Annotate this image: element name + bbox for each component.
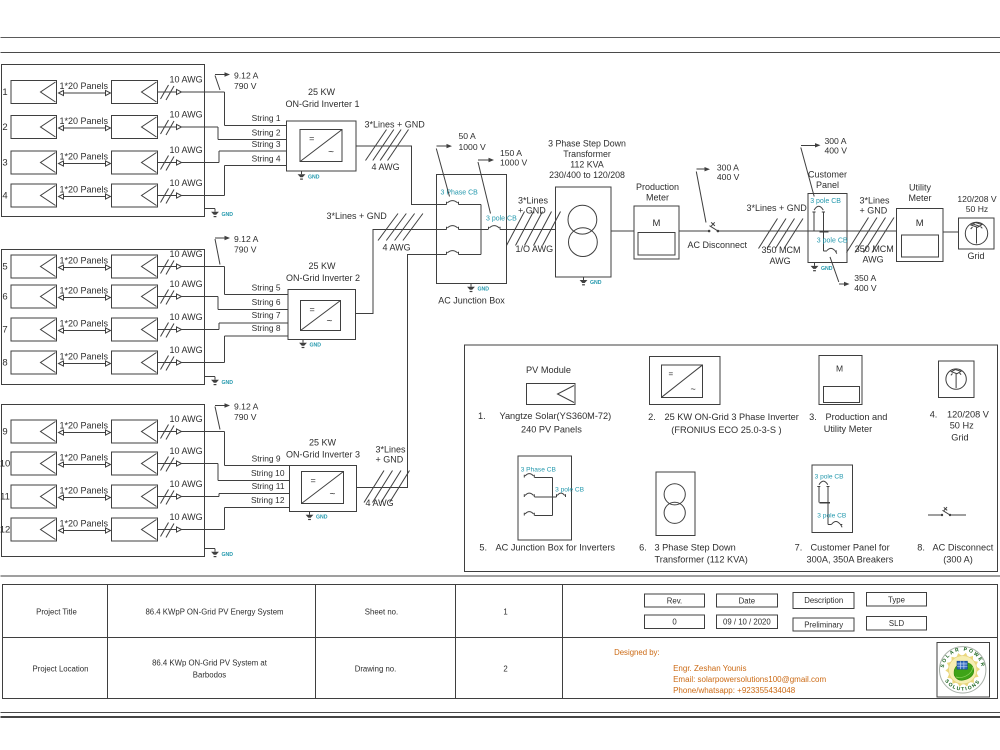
svg-text:String 11: String 11 (252, 481, 285, 491)
svg-text:1*20 Panels: 1*20 Panels (60, 81, 109, 91)
annotation leader 300 A customer (801, 148, 814, 197)
svg-text:1*20 Panels: 1*20 Panels (60, 421, 109, 431)
svg-text:25 KW: 25 KW (308, 87, 336, 97)
ground symbol group 1 (214, 209, 216, 212)
legend junction breaker 2 (524, 493, 534, 497)
svg-text:3 pole CB: 3 pole CB (815, 474, 845, 481)
svg-text:=: = (310, 305, 315, 315)
ground symbol transformer (583, 277, 585, 280)
bottom border line 1 (1, 712, 1000, 714)
wire utility meter to grid (943, 231, 958, 233)
PV panel symbol A string 11 (11, 485, 57, 508)
conductor size slashes string 2 (161, 120, 169, 134)
svg-text:10: 10 (0, 459, 10, 470)
svg-text:Production and: Production and (826, 412, 888, 422)
series arrow between panels string 10 (59, 464, 110, 466)
svg-text:9.12 A: 9.12 A (234, 71, 259, 81)
svg-text:String 3: String 3 (252, 139, 281, 149)
svg-text:ON-Grid Inverter 1: ON-Grid Inverter 1 (285, 99, 359, 109)
wire customer panel to utility meter (847, 230, 897, 232)
output wire with arrow string 10 (158, 463, 219, 465)
legend customer panel top breaker (817, 481, 829, 486)
PV panel symbol A string 8 (11, 351, 57, 374)
svg-text:+ GND: + GND (518, 205, 546, 215)
string wire String 9 (224, 465, 289, 467)
svg-text:+ GND: + GND (860, 205, 888, 215)
legend grid circle symbol (946, 369, 966, 389)
svg-text:10 AWG: 10 AWG (170, 249, 203, 259)
ground symbol group 3 (214, 549, 216, 552)
wire inverter 2 output to AC junction box (356, 230, 447, 314)
3 pole CB breaker in junction box (489, 226, 501, 230)
PV panel symbol A string 3 (11, 151, 57, 174)
title block column line 2 (315, 585, 317, 699)
svg-text:10 AWG: 10 AWG (170, 414, 203, 424)
svg-text:ON-Grid Inverter 2: ON-Grid Inverter 2 (286, 273, 360, 283)
legend customer panel box (812, 465, 853, 532)
svg-text:3 Phase Step Down: 3 Phase Step Down (655, 543, 736, 553)
svg-text:3 Phase CB: 3 Phase CB (441, 190, 479, 197)
wire production meter to AC disconnect (679, 230, 709, 232)
svg-text:25 KW: 25 KW (309, 438, 337, 448)
riser wire group 1 row 2 (217, 127, 219, 139)
conductor slashes junction to transformer (507, 212, 525, 246)
legend customer panel contact bar (820, 502, 831, 504)
wire inverter 1 output to AC junction box (356, 146, 446, 204)
series arrow between panels string 5 (59, 267, 110, 269)
svg-text:7.: 7. (795, 543, 803, 553)
svg-text:1.: 1. (478, 411, 486, 421)
svg-text:3.: 3. (809, 412, 817, 422)
svg-text:10 AWG: 10 AWG (170, 345, 203, 355)
svg-text:=: = (669, 370, 674, 379)
svg-text:String 7: String 7 (252, 310, 281, 320)
svg-text:1*20 Panels: 1*20 Panels (60, 152, 109, 162)
string wire String 1 (224, 125, 286, 127)
legend junction box symbol (518, 456, 571, 540)
svg-text:Engr. Zeshan Younis: Engr. Zeshan Younis (673, 664, 746, 673)
svg-text:9: 9 (2, 427, 7, 438)
output wire with arrow string 7 (158, 329, 220, 331)
svg-text:Designed by:: Designed by: (614, 648, 660, 657)
riser wire group 2 row 3 (218, 323, 220, 330)
svg-text:2.: 2. (648, 412, 656, 422)
inverter U2 outer box (288, 290, 356, 340)
svg-text:GND: GND (478, 287, 490, 293)
AC junction box enclosure (437, 175, 507, 284)
svg-text:Description: Description (804, 596, 843, 605)
PV panel symbol B string 7 (112, 318, 158, 341)
svg-text:10 AWG: 10 AWG (170, 512, 203, 522)
series arrow between panels string 3 (59, 163, 110, 165)
svg-text:1*20 Panels: 1*20 Panels (60, 256, 109, 266)
conductor slashes disconnect to customer panel (759, 219, 778, 249)
svg-text:(FRONIUS ECO 25.0-3-S ): (FRONIUS ECO 25.0-3-S ) (671, 425, 781, 435)
svg-text:350 MCM: 350 MCM (762, 245, 801, 255)
svg-text:120/208 V: 120/208 V (957, 194, 996, 204)
Type value box (867, 617, 927, 630)
svg-text:8: 8 (2, 358, 7, 369)
svg-text:1*20 Panels: 1*20 Panels (60, 319, 109, 329)
svg-text:25 KW ON-Grid 3 Phase Inverter: 25 KW ON-Grid 3 Phase Inverter (665, 412, 799, 422)
svg-text:1*20 Panels: 1*20 Panels (60, 519, 109, 529)
series arrow between panels string 12 (59, 530, 110, 532)
svg-text:1*20 Panels: 1*20 Panels (60, 286, 109, 296)
svg-text:12: 12 (0, 525, 10, 536)
svg-text:Type: Type (888, 596, 905, 605)
PV panel symbol B string 9 (112, 420, 158, 443)
inverter U1 inner symbol (300, 130, 342, 162)
junction box vertical bus (480, 205, 482, 255)
svg-text:10 AWG: 10 AWG (170, 479, 203, 489)
PV array group 3 enclosure box (2, 405, 205, 557)
PV panel symbol B string 8 (112, 351, 158, 374)
svg-text:Project Title: Project Title (36, 608, 77, 617)
Date header box (716, 594, 777, 607)
conductor size slashes string 7 (161, 323, 169, 337)
svg-text:Utility Meter: Utility Meter (824, 424, 873, 434)
svg-text:50 A: 50 A (459, 131, 476, 141)
riser wire group 1 row 1 (223, 92, 225, 126)
svg-text:~: ~ (328, 147, 334, 158)
svg-text:Yangtze Solar(YS360M-72): Yangtze Solar(YS360M-72) (500, 411, 612, 421)
svg-text:String 9: String 9 (252, 454, 281, 464)
ground stub wire group 1 (205, 208, 216, 210)
svg-text:112 KVA: 112 KVA (570, 160, 604, 170)
customer panel main wire (808, 230, 847, 232)
inverter U3 inner symbol (302, 472, 344, 504)
svg-text:AC Disconnect: AC Disconnect (933, 543, 994, 553)
svg-text:Project Location: Project Location (33, 665, 89, 674)
svg-text:9.12 A: 9.12 A (234, 402, 259, 412)
annotation leader 9.12 A group 2 (215, 239, 220, 265)
svg-text:1*20 Panels: 1*20 Panels (60, 453, 109, 463)
svg-text:3: 3 (2, 158, 7, 169)
ground symbol group 2 (214, 377, 216, 380)
ground stub wire group 2 (205, 376, 216, 378)
svg-text:10 AWG: 10 AWG (170, 178, 203, 188)
PV panel symbol A string 7 (11, 318, 57, 341)
svg-text:String 5: String 5 (252, 283, 281, 293)
bottom border line 2 (1, 716, 1000, 718)
grid box (959, 218, 995, 249)
customer panel top breaker (812, 206, 825, 212)
PV panel symbol B string 6 (112, 285, 158, 308)
conductor size slashes string 5 (161, 260, 169, 274)
svg-text:SLD: SLD (889, 619, 905, 628)
svg-text:1000 V: 1000 V (500, 157, 528, 167)
svg-text:10 AWG: 10 AWG (170, 110, 203, 120)
string wire String 7 (219, 322, 288, 324)
title block outer box (3, 585, 998, 699)
svg-text:GND: GND (222, 552, 234, 558)
output wire with arrow string 12 (158, 529, 225, 531)
svg-text:86.4 KWpP ON-Grid PV Energy Sy: 86.4 KWpP ON-Grid PV Energy System (145, 608, 283, 617)
utility meter box (897, 208, 944, 261)
conductor slashes inverter 1 output (366, 130, 387, 161)
conductor size slashes string 10 (161, 457, 169, 471)
Date value box (716, 615, 777, 628)
ground symbol inverter U2 (302, 340, 304, 343)
svg-text:Customer Panel for: Customer Panel for (811, 543, 890, 553)
svg-text:6: 6 (2, 292, 7, 303)
svg-text:Transformer (112 KVA): Transformer (112 KVA) (655, 555, 748, 565)
conductor size slashes string 11 (161, 490, 169, 504)
PV panel symbol A string 5 (11, 255, 57, 278)
PV panel symbol A string 12 (11, 518, 57, 541)
svg-text:2: 2 (503, 665, 507, 674)
svg-text:M: M (836, 364, 843, 374)
svg-text:1/O AWG: 1/O AWG (516, 244, 554, 254)
PV array group 2 enclosure box (2, 250, 205, 385)
svg-text:GND: GND (308, 174, 320, 180)
legend junction 3 pole breaker (557, 493, 566, 497)
svg-text:3*Lines + GND: 3*Lines + GND (365, 120, 426, 130)
string wire String 5 (224, 294, 288, 296)
svg-text:6.: 6. (639, 543, 647, 553)
transformer winding circle 1 (568, 205, 597, 234)
svg-text:1*20 Panels: 1*20 Panels (60, 185, 109, 195)
svg-text:Email: solarpowersolutions100@: Email: solarpowersolutions100@gmail.com (673, 675, 826, 684)
svg-text:String 2: String 2 (252, 128, 281, 138)
svg-text:350 MCM: 350 MCM (855, 244, 894, 254)
svg-text:3*Lines: 3*Lines (860, 196, 891, 206)
legend inverter outer box (650, 357, 720, 405)
svg-text:M: M (653, 218, 661, 229)
riser wire group 2 row 2 (217, 297, 219, 310)
svg-text:Drawing no.: Drawing no. (355, 665, 397, 674)
wire junction box output (500, 229, 556, 231)
riser wire group 1 row 3 (218, 151, 220, 162)
annotation leader 150 A (478, 162, 491, 214)
title block column line 1 (107, 585, 109, 699)
svg-text:86.4 KWp ON-Grid PV System at: 86.4 KWp ON-Grid PV System at (152, 659, 268, 668)
svg-text:1*20 Panels: 1*20 Panels (60, 486, 109, 496)
string wire String 2 (218, 138, 287, 140)
annotation leader 9.12 A group 1 (215, 76, 220, 91)
conductor size slashes string 4 (161, 189, 169, 203)
svg-text:String 4: String 4 (252, 153, 281, 163)
svg-text:Preliminary: Preliminary (804, 621, 843, 630)
legend transformer circle 2 (664, 502, 685, 523)
svg-text:~: ~ (330, 489, 336, 500)
svg-text:1: 1 (2, 87, 7, 98)
PV panel symbol A string 6 (11, 285, 57, 308)
legend junction breaker 3 (524, 512, 534, 516)
annotation leader 50 A (436, 149, 449, 197)
series arrow between panels string 6 (59, 297, 110, 299)
svg-text:3 pole CB: 3 pole CB (486, 216, 517, 223)
svg-text:+ GND: + GND (376, 455, 404, 465)
svg-text:120/208 V: 120/208 V (947, 410, 990, 420)
svg-text:String 1: String 1 (252, 113, 281, 123)
PV panel symbol A string 4 (11, 184, 57, 207)
PV panel symbol B string 11 (112, 485, 158, 508)
annotation leader 9.12 A group 3 (215, 407, 220, 430)
string wire String 6 (218, 309, 288, 311)
svg-text:Meter: Meter (908, 193, 931, 203)
svg-text:50 Hz: 50 Hz (950, 421, 974, 431)
svg-text:AWG: AWG (863, 255, 884, 265)
top border line 1 (1, 37, 1000, 39)
svg-text:Customer: Customer (808, 170, 847, 180)
svg-text:3 pole CB: 3 pole CB (817, 513, 847, 520)
PV panel symbol B string 3 (112, 151, 158, 174)
svg-text:4 AWG: 4 AWG (372, 162, 400, 172)
Description value box (793, 618, 854, 631)
customer panel lower breaker (823, 248, 837, 253)
svg-text:10 AWG: 10 AWG (170, 279, 203, 289)
svg-text:300A, 350A Breakers: 300A, 350A Breakers (807, 555, 894, 565)
production meter box (634, 206, 679, 259)
svg-text:Sheet no.: Sheet no. (365, 608, 398, 617)
transformer winding circle 2 (569, 228, 598, 257)
riser wire group 3 row 4 (223, 508, 225, 530)
PV panel symbol A string 9 (11, 420, 57, 443)
wire transformer to production meter (611, 230, 634, 232)
svg-text:~: ~ (327, 316, 333, 327)
svg-text:3 pole CB: 3 pole CB (810, 198, 841, 205)
svg-text:1: 1 (503, 608, 507, 617)
svg-text:AC Junction Box for Inverters: AC Junction Box for Inverters (496, 543, 616, 553)
svg-text:09 / 10 / 2020: 09 / 10 / 2020 (723, 618, 771, 627)
svg-text:AWG: AWG (770, 256, 791, 266)
legend junction vertical bus (551, 478, 553, 516)
svg-text:230/400 to 120/208: 230/400 to 120/208 (549, 170, 625, 180)
conductor slashes customer to utility (847, 218, 869, 253)
output wire with arrow string 3 (158, 162, 220, 164)
string wire String 4 (224, 164, 286, 166)
wire CB2 to 3 pole CB (459, 229, 489, 231)
riser wire group 3 row 3 (218, 494, 220, 497)
output wire with arrow string 8 (158, 362, 225, 364)
string wire String 3 (219, 150, 287, 152)
separator line above title block (1, 575, 1000, 577)
wire CB1 to bus (459, 204, 482, 206)
legend meter inner rectangle (824, 386, 860, 402)
svg-text:GND: GND (590, 280, 602, 286)
svg-text:7: 7 (2, 325, 7, 336)
svg-text:400 V: 400 V (717, 172, 740, 182)
customer panel contact bar (820, 231, 829, 233)
series arrow between panels string 7 (59, 330, 110, 332)
svg-text:Barbodos: Barbodos (193, 671, 226, 680)
output wire with arrow string 1 (158, 91, 225, 93)
output wire with arrow string 9 (158, 431, 225, 433)
svg-text:3 pole CB: 3 pole CB (817, 238, 848, 245)
svg-text:String 12: String 12 (251, 495, 285, 505)
PV panel symbol B string 1 (112, 81, 158, 104)
ground symbol inverter U3 (309, 512, 311, 515)
svg-text:790 V: 790 V (234, 245, 257, 255)
legend customer panel lower breaker (828, 522, 842, 528)
svg-text:10 AWG: 10 AWG (170, 446, 203, 456)
svg-text:GND: GND (821, 266, 833, 272)
legend transformer box (656, 472, 695, 536)
AC disconnect switch (708, 230, 711, 233)
title block column line 4 (562, 585, 564, 699)
riser wire group 3 row 2 (217, 464, 219, 481)
svg-text:790 V: 790 V (234, 81, 257, 91)
conductor size slashes string 6 (161, 290, 169, 304)
legend AC disconnect symbol (928, 514, 941, 516)
series arrow between panels string 4 (59, 196, 110, 198)
company logo emblem (940, 647, 986, 693)
svg-text:2: 2 (2, 122, 7, 133)
svg-text:3 Phase CB: 3 Phase CB (521, 467, 557, 474)
svg-text:PV Module: PV Module (526, 365, 571, 375)
transformer enclosure box (556, 187, 611, 277)
riser wire group 3 row 1 (223, 432, 225, 466)
legend enclosure box (465, 345, 998, 572)
series arrow between panels string 1 (59, 92, 110, 94)
string wire String 8 (224, 335, 288, 337)
series arrow between panels string 9 (59, 432, 110, 434)
svg-text:AC Junction Box: AC Junction Box (438, 296, 505, 306)
svg-text:String 8: String 8 (252, 323, 281, 333)
svg-text:Grid: Grid (967, 251, 984, 261)
string wire String 10 (218, 480, 290, 482)
customer panel enclosure (808, 194, 847, 263)
series arrow between panels string 11 (59, 497, 110, 499)
svg-text:4 AWG: 4 AWG (383, 243, 411, 253)
svg-text:1*20 Panels: 1*20 Panels (60, 116, 109, 126)
svg-text:3 Phase Step Down: 3 Phase Step Down (548, 139, 626, 149)
annotation leader 300 A disconnect (696, 172, 706, 223)
svg-text:11: 11 (0, 492, 10, 503)
svg-text:Phone/whatsapp: +923355434048: Phone/whatsapp: +923355434048 (673, 686, 796, 695)
svg-text:ON-Grid Inverter 3: ON-Grid Inverter 3 (286, 450, 360, 460)
conductor size slashes string 12 (161, 523, 169, 537)
svg-text:10 AWG: 10 AWG (170, 312, 203, 322)
grid circle symbol (965, 222, 987, 244)
svg-text:GND: GND (222, 212, 234, 218)
production meter inner rectangle (638, 233, 675, 255)
svg-text:5: 5 (2, 262, 7, 273)
ground symbol inverter U1 (301, 171, 303, 174)
svg-text:4: 4 (2, 191, 7, 202)
PV panel symbol A string 1 (11, 81, 57, 104)
breaker CB1 in junction box (447, 201, 459, 205)
output wire with arrow string 5 (158, 266, 225, 268)
svg-text:Date: Date (739, 597, 755, 606)
legend grid box (938, 361, 974, 397)
svg-text:10 AWG: 10 AWG (170, 75, 203, 85)
svg-text:3*Lines: 3*Lines (518, 196, 549, 206)
svg-text:String 6: String 6 (252, 297, 281, 307)
svg-text:25 KW: 25 KW (308, 261, 336, 271)
PV panel symbol B string 10 (112, 452, 158, 475)
svg-text:Meter: Meter (646, 192, 669, 202)
PV panel symbol B string 4 (112, 184, 158, 207)
output wire with arrow string 11 (158, 496, 220, 498)
inverter U1 outer box (287, 121, 357, 171)
company logo box (937, 642, 990, 697)
svg-text:1*20 Panels: 1*20 Panels (60, 352, 109, 362)
title block row divider (3, 637, 998, 639)
legend inverter inner symbol (662, 365, 703, 398)
legend junction breaker 1 (524, 474, 534, 478)
svg-text:4 AWG: 4 AWG (366, 498, 394, 508)
svg-text:=: = (311, 476, 316, 486)
ground stub wire group 3 (205, 548, 216, 550)
svg-text:3 pole CB: 3 pole CB (555, 487, 585, 494)
svg-text:Utility: Utility (909, 183, 931, 193)
PV array group 1 enclosure box (2, 65, 205, 217)
svg-text:10 AWG: 10 AWG (170, 145, 203, 155)
output wire with arrow string 4 (158, 195, 225, 197)
svg-text:Panel: Panel (816, 180, 839, 190)
